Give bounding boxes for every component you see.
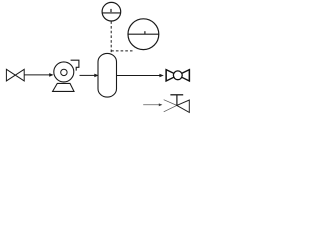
valve V3 handle T-bar xyxy=(170,94,183,96)
valve V3 left open triangle xyxy=(164,100,177,112)
wire instrument dashed vertical line xyxy=(110,21,112,53)
wire bottom arrow line xyxy=(143,104,159,106)
wire instrument dashed horizontal branch xyxy=(111,50,132,52)
instrument bubble LIC tiny tag mark xyxy=(144,31,145,34)
valve V3 right triangle xyxy=(177,100,190,112)
arrowhead into valve V3 xyxy=(159,103,163,106)
instrument bubble PI (small, top) xyxy=(102,2,121,21)
arrowhead into pump xyxy=(49,73,53,77)
valve V2 ball circle xyxy=(173,71,182,80)
wire pipe V1 to pump xyxy=(24,74,50,76)
pump P1 impeller inner circle xyxy=(61,69,67,75)
wire pipe pump to vessel xyxy=(80,74,96,76)
pump P1 casing circle xyxy=(54,62,74,82)
pump P1 base pedestal xyxy=(53,83,74,91)
instrument bubble LIC diameter line xyxy=(128,33,159,35)
valve V2 (ball valve, right) xyxy=(166,69,189,81)
instrument bubble PI chord line xyxy=(102,12,120,14)
instrument bubble PI tiny tag mark xyxy=(110,9,111,12)
wire pipe vessel to valve V2 xyxy=(117,75,161,77)
valve V1 (gate valve, far left) xyxy=(6,69,24,81)
vessel T1 (vertical drum) xyxy=(98,53,117,97)
instrument bubble LIC (large) xyxy=(128,19,159,50)
pump P1 discharge nozzle flag xyxy=(71,60,79,70)
arrowhead into vessel xyxy=(94,74,98,78)
valve V3 stem xyxy=(176,95,178,105)
arrowhead into valve V2 xyxy=(159,74,163,78)
